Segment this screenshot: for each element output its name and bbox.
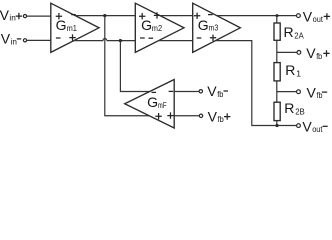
node Vfb- terminal circle (right) (297, 90, 301, 94)
wire Gm2 to Gm3 top (160, 15, 193, 17)
svg-text:m1: m1 (67, 23, 78, 33)
node Vfb- terminal label (mid) (207, 83, 228, 99)
node Vout+ terminal circle (297, 14, 301, 18)
wire Gm1 out- to Gm2 in+ (top rail) (75, 15, 135, 17)
wire Gm3 out- to Vout+ (top rail right) (217, 15, 297, 17)
svg-text:1: 1 (296, 69, 301, 79)
wire Vin+ to Gm1 (27, 15, 51, 17)
svg-text:G: G (56, 17, 67, 33)
wire feedback vertical B to GmF out- (120, 41, 149, 92)
svg-text:2A: 2A (294, 31, 304, 41)
node junction dot A (103, 14, 106, 17)
wire R1 to R2B (276, 81, 278, 102)
node Vin- terminal circle (23, 39, 26, 42)
wire feedback vertical A to GmF out+ (105, 16, 150, 116)
svg-text:mF: mF (158, 100, 167, 110)
svg-text:2B: 2B (295, 107, 305, 117)
wire Vfb- tap (277, 91, 297, 93)
wire Gm2 to Gm3 bottom (159, 40, 193, 42)
svg-text:m3: m3 (209, 23, 219, 33)
node Vfb+ terminal label (mid) (208, 108, 231, 124)
svg-text:V: V (1, 30, 11, 46)
svg-text:fb: fb (317, 90, 323, 100)
op-amp GmF (feedback, points left) (125, 80, 175, 129)
node Vout- terminal label (302, 118, 327, 134)
node Vfb+ terminal label (right) (306, 45, 330, 61)
resistor R2B (274, 100, 305, 121)
wire GmF in- to Vfb- terminal (mid) (174, 91, 199, 93)
resistor R2A (274, 23, 304, 41)
wire GmF in+ to Vfb+ terminal (mid) (174, 115, 199, 117)
node Vin+ terminal circle (23, 15, 26, 18)
wire R2B to bottom rail (276, 121, 278, 126)
node junction dot at resistor chain top (276, 14, 279, 17)
svg-text:m2: m2 (152, 23, 163, 33)
svg-text:fb: fb (316, 51, 322, 61)
svg-text:G: G (198, 17, 209, 33)
op-amp Gm1 (51, 3, 99, 52)
resistor R1 (274, 62, 301, 81)
svg-text:R: R (284, 100, 294, 116)
op-amp Gm3 (193, 3, 241, 52)
svg-text:V: V (306, 45, 316, 61)
svg-text:V: V (208, 108, 218, 124)
svg-text:in: in (9, 13, 16, 23)
op-amp Gm2 (135, 3, 184, 52)
node Vin- terminal label (1, 30, 21, 46)
svg-text:V: V (303, 8, 313, 24)
svg-text:out: out (313, 14, 324, 24)
svg-text:V: V (207, 83, 217, 99)
node junction dot B (119, 39, 122, 42)
svg-text:out: out (312, 124, 323, 134)
wire Gm1 out+ to Gm2 in- (bottom rail, hop over vertical) (74, 39, 135, 41)
svg-text:R: R (284, 24, 294, 40)
svg-text:R: R (285, 62, 295, 78)
node Vin+ terminal label (0, 7, 22, 23)
svg-text:G: G (147, 94, 158, 110)
wire Gm3 out+ down to Vout- (right drop) (216, 41, 297, 126)
node junction dot at resistor chain bottom (275, 124, 278, 127)
svg-text:V: V (0, 7, 10, 23)
wire Vfb+ tap (277, 51, 297, 53)
svg-text:fb: fb (218, 114, 224, 124)
node Vout+ terminal label (303, 8, 330, 24)
svg-text:V: V (307, 84, 317, 100)
svg-text:in: in (11, 36, 18, 46)
wire resistor chain top segment (276, 16, 278, 23)
node Vfb+ terminal circle (right) (297, 51, 301, 55)
node Vout- terminal circle (297, 124, 301, 128)
wire Vin- to Gm1 (27, 39, 51, 41)
node Vfb- terminal circle (mid) (199, 90, 202, 93)
node Vfb- terminal label (right) (307, 84, 328, 100)
svg-text:V: V (302, 118, 312, 134)
svg-text:fb: fb (217, 89, 223, 99)
wire R2A to R1 (276, 40, 278, 62)
node Vfb+ terminal circle (mid) (199, 114, 202, 117)
